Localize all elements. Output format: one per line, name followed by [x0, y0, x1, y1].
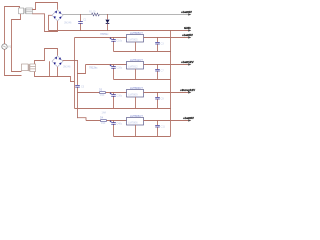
svg-text:1N4: 1N4	[101, 122, 106, 125]
LED D5	[105, 15, 109, 31]
capacitor input row1	[113, 38, 115, 52]
wire bridge1 DC-	[49, 15, 53, 30]
wire source top lead	[5, 7, 20, 44]
wire row2 output line	[144, 64, 191, 66]
wire row1 input line	[75, 37, 127, 39]
diode D5 row4	[101, 119, 107, 121]
svg-text:LM7806: LM7806	[128, 120, 138, 124]
svg-text:+9vreg12V: +9vreg12V	[180, 88, 195, 92]
svg-text:LM7809: LM7809	[128, 92, 138, 96]
svg-text:7805kc: 7805kc	[100, 32, 109, 36]
wire row2 input line	[86, 64, 127, 66]
wire right ground bus	[170, 31, 172, 137]
wire row3 output line	[144, 92, 191, 94]
voltage regulator U3	[127, 90, 144, 98]
svg-text:LM7812: LM7812	[128, 64, 138, 68]
AC source V1	[2, 44, 7, 49]
svg-text:+batt9V: +batt9V	[181, 10, 192, 14]
wire source bottom lead	[5, 49, 22, 75]
node +9V terminal	[180, 88, 195, 94]
wire row2 feed duct	[77, 61, 79, 118]
svg-text:C40u: C40u	[116, 123, 122, 126]
regulator row 2	[86, 58, 191, 80]
svg-text:+batt5V: +batt5V	[182, 33, 193, 37]
svg-text:C10u: C10u	[116, 40, 122, 43]
wire row3 ground rail	[75, 108, 171, 110]
wire T1 secondary bottom AC feed	[32, 14, 57, 32]
wire U2 ground pin	[135, 69, 137, 80]
wire row2 ground rail	[114, 79, 171, 81]
wire U1 ground pin	[135, 42, 137, 52]
wire row4 output line	[144, 120, 191, 122]
node +12V terminal	[181, 60, 194, 66]
node +batt terminal	[181, 10, 192, 16]
capacitor C1	[78, 15, 83, 31]
wire bridge2 DC+	[63, 60, 78, 62]
wire bridge2 DC- return	[50, 61, 75, 81]
svg-text:+batt6V: +batt6V	[183, 116, 194, 120]
svg-text:C11: C11	[161, 126, 166, 129]
wire +batt line continues	[99, 14, 191, 16]
diode D4 row3	[100, 91, 106, 93]
bridge rectifier D2	[52, 56, 63, 67]
svg-text:LM7805CT: LM7805CT	[130, 31, 143, 35]
node GND terminal	[184, 26, 192, 32]
resistor R1	[92, 13, 100, 16]
node +5V terminal	[182, 33, 193, 39]
svg-text:3N246: 3N246	[63, 66, 71, 69]
capacitor input row3	[113, 93, 115, 109]
transformer T1	[19, 8, 33, 14]
wire U3 ground pin	[135, 97, 137, 109]
wire row4 input line	[86, 120, 127, 122]
wire T1 secondary top to bridge1	[32, 3, 57, 10]
svg-text:LM7805: LM7805	[128, 37, 138, 41]
svg-text:7812kc: 7812kc	[89, 66, 98, 70]
svg-text:LM7809CT: LM7809CT	[130, 86, 143, 90]
voltage regulator U2	[127, 62, 144, 70]
node +6V terminal	[183, 116, 194, 122]
svg-text:LM7812CT: LM7812CT	[130, 58, 143, 62]
wire T2 secondary top to bridge2	[35, 49, 58, 64]
ground rail GND	[49, 30, 191, 32]
wire row1 output line	[144, 37, 191, 39]
wire T2 secondary bottom AC feed	[35, 67, 58, 77]
junction dots	[57, 14, 171, 121]
regulator row 1	[75, 31, 191, 52]
capacitor input row4	[113, 121, 115, 137]
transformer T2	[22, 64, 36, 72]
capacitor output row3	[157, 93, 159, 109]
capacitor output row4	[157, 121, 159, 137]
svg-text:LM7806CT: LM7806CT	[130, 114, 143, 118]
wire row3 input line	[78, 92, 127, 94]
bridge rectifier D1	[52, 10, 63, 21]
regulator row 3	[75, 86, 191, 109]
wire left feed bus	[74, 38, 76, 109]
svg-text:R1 10: R1 10	[89, 10, 96, 13]
wire primary bus	[12, 14, 22, 72]
capacitor input row2	[113, 65, 115, 80]
voltage regulator U1	[127, 35, 144, 43]
wire row2 jog	[78, 65, 86, 74]
wire U4 ground pin	[135, 125, 137, 137]
wire row4 ground rail	[114, 136, 171, 138]
voltage regulator U4	[127, 118, 144, 126]
capacitor output row2	[157, 65, 159, 80]
svg-text:1N4: 1N4	[102, 112, 107, 115]
svg-text:C30u: C30u	[116, 95, 122, 98]
wire rows 3-4 feed duct	[78, 118, 87, 121]
svg-text:C20u: C20u	[116, 67, 122, 70]
regulator row 4	[86, 114, 191, 137]
svg-text:1N4: 1N4	[100, 94, 105, 97]
capacitor output row1	[157, 38, 159, 52]
wire row1 ground rail	[114, 51, 171, 53]
svg-text:+batt12V: +batt12V	[181, 60, 194, 64]
capacitor C5	[75, 85, 80, 87]
wire +batt line from bridge1 DC+	[63, 14, 92, 16]
svg-text:3N246: 3N246	[64, 21, 72, 24]
svg-text:GND: GND	[184, 26, 192, 30]
